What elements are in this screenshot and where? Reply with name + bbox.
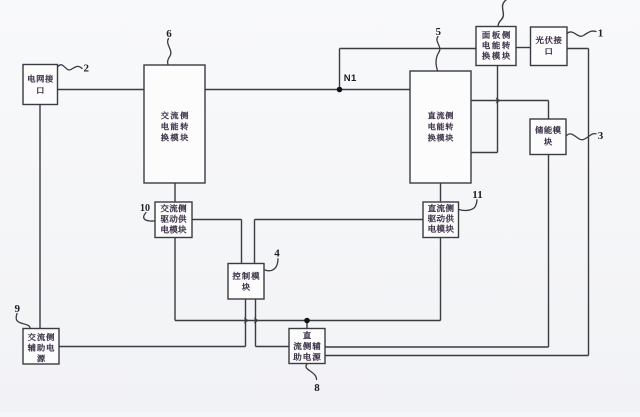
label 6 with leader (166, 28, 172, 65)
junction dot above DC auxiliary supply (304, 318, 310, 324)
module box 8: DC-side auxiliary power 直流侧辅助电源 (289, 329, 325, 364)
wire: storage module bottom drop (548, 155, 550, 348)
wire: DC drive supply bottom drop (440, 238, 442, 321)
label 9 with leader (15, 303, 30, 328)
svg-text:11: 11 (472, 189, 482, 201)
wire: DC conversion module to storage module horizontal (471, 100, 549, 102)
module box 5: DC-side power conversion 直流侧电能转换模块 (410, 71, 471, 183)
module box 11: DC-side drive supply 直流侧驱动供电模块 (423, 202, 459, 238)
leader for label 7 (number cropped off top edge) (498, 0, 506, 27)
label 3 with leader (567, 130, 604, 142)
wire: control module right top pin riser (254, 220, 256, 264)
wire: control module to DC auxiliary supply run (256, 346, 290, 348)
svg-text:N1: N1 (344, 73, 357, 84)
label 4 with leader (265, 247, 280, 270)
svg-text:2: 2 (84, 63, 90, 75)
label 1 with leader (567, 28, 603, 40)
wire: grid interface drop to AC auxiliary supply (39, 105, 41, 329)
label 10 with leader (140, 203, 155, 221)
svg-text:6: 6 (166, 28, 172, 40)
label 5 with leader (436, 26, 442, 71)
wire: AC drive supply bottom drop (174, 238, 176, 321)
wire: control module bottom right drop (255, 299, 257, 347)
wire: panel-side conversion module to PV interface (516, 47, 531, 49)
module box 4: control module 控制模块 (228, 264, 264, 300)
svg-text:1: 1 (598, 28, 604, 40)
svg-text:10: 10 (140, 203, 150, 214)
node N1 junction dot (337, 87, 343, 93)
module box 10: AC-side drive supply 交流侧驱动供电模块 (155, 202, 192, 238)
wire: PV interface right stub (567, 48, 589, 50)
wire: AC drive supply to control module horizontal (193, 219, 242, 221)
svg-text:3: 3 (598, 130, 604, 142)
wire: panel-side drop into DC conversion module right side (471, 152, 498, 154)
wire: storage module feed drop (548, 101, 550, 120)
arrowhead on auxiliary bus at left control drop (244, 317, 249, 323)
interface box 2: grid interface 电网接口 (23, 65, 58, 105)
wire: control module to AC auxiliary supply run (59, 346, 246, 348)
label 8 with leader (306, 364, 320, 394)
wire: grid interface to AC conversion module (58, 89, 145, 91)
label 2 with leader (58, 63, 90, 75)
wire: auxiliary bus horizontal (175, 320, 441, 322)
wire: control module to DC drive supply horizontal (255, 219, 424, 221)
svg-text:4: 4 (274, 247, 280, 259)
label 11 with leader (459, 189, 483, 210)
svg-text:8: 8 (314, 382, 320, 394)
wire: storage bottom run to DC auxiliary supply (325, 346, 549, 348)
interface box 1: photovoltaic interface 光伏接口 (531, 27, 568, 66)
wire: node N1 riser (339, 49, 341, 90)
wire: AC conversion module to DC conversion module through node N1 (205, 89, 410, 91)
svg-text:5: 5 (436, 26, 442, 38)
wire: DC conversion module to DC drive supply module (440, 183, 442, 202)
wire: panel-side module drop (497, 66, 499, 153)
wire: N1 riser to panel-side conversion module (340, 48, 477, 50)
svg-text:9: 9 (15, 303, 21, 315)
wire: control module bottom left drop (245, 299, 247, 347)
wire: right outer bottom run to DC auxiliary supply (325, 355, 589, 357)
module box 3: energy storage module 储能模块 (530, 119, 566, 155)
wire: junction to DC auxiliary supply top (306, 321, 308, 329)
wire: right outer vertical from PV interface (588, 49, 590, 356)
arrowhead on DC-to-storage wire (496, 97, 501, 103)
module box 7: panel-side power conversion 面板侧电能转换模块 (476, 27, 516, 66)
module box 9: AC-side auxiliary power 交流侧辅助电源 (23, 329, 59, 365)
wire: control module left top pin riser (241, 220, 243, 264)
arrowhead on auxiliary bus at right control drop (254, 317, 259, 323)
module box 6: AC-side power conversion 交流侧电能转换模块 (144, 65, 205, 183)
wire: AC conversion module to AC drive supply module (174, 183, 176, 202)
